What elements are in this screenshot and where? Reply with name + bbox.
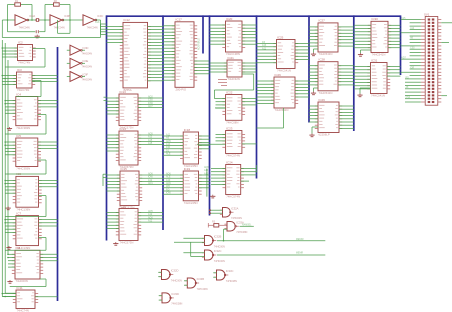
AND gate IC33D (spare) [159,292,183,306]
svg-text:IC20: IC20 [226,17,233,21]
IC IC25 [273,35,298,72]
wire: IC9B lower stub [58,20,71,33]
wire bundle: IC20 right pins to bus VB6 [242,25,257,44]
svg-text:A14: A14 [410,27,415,30]
svg-text:74HC00N: 74HC00N [16,279,28,283]
svg-text:74HC541N: 74HC541N [372,53,386,57]
wire bundle: IC6 outputs to bus VB1 [39,180,58,186]
wire bundle: IC30 left pins from bus VB9 [354,25,371,47]
wire bundle: IC28 left pins from bus VB7 [309,66,318,85]
svg-text:IC32D: IC32D [171,269,179,273]
IC IC24 [223,160,244,198]
wire bundle: IC5 outputs to bus VB1 [38,142,58,148]
IC IC2 [14,40,35,64]
svg-text:74HC04N: 74HC04N [82,66,93,69]
wire: IC32B output long run [217,229,325,241]
svg-text:74HC08N: 74HC08N [197,288,208,291]
wire bundle: IC11 input wires [2,293,17,298]
wire bundle: IC12 right pins to bus VB3 [148,26,164,80]
wire bundle: IC18 right pins to bus VB5 [199,136,210,149]
IC IC7 [13,211,42,249]
wire bundle: IC5 input wires [4,141,15,155]
resistor R1 [15,0,21,6]
wire bundle: IC21 right pins to bus VB6 [242,63,257,72]
svg-text:IC9E: IC9E [83,59,89,63]
wire bundle: IC19 right pins to bus VB5 [199,175,210,188]
wire: IC13 extended left pins [104,97,107,100]
wire bundle: IC27 left pins from bus VB7 [309,27,318,46]
svg-text:SV1: SV1 [424,12,430,16]
svg-text:RAMSEL: RAMSEL [242,223,252,226]
wire: IC11 output to bus VB1 [35,296,58,298]
wire bundle: IC14 right pins to bus VB3 [138,132,163,145]
IC IC4 [13,92,41,130]
svg-text:IC33D: IC33D [171,292,179,296]
bus: bus segment VB4 at x=203 [202,15,204,53]
resistor R3 [208,221,227,228]
IC IC13 [116,90,141,130]
wire bundle: IC19 left pin wires with labels [163,172,183,194]
svg-text:74HC393N: 74HC393N [16,167,30,171]
IC IC14 [116,127,141,169]
svg-text:74HC574N: 74HC574N [226,195,240,199]
wire: IC29 ground [309,127,318,137]
svg-text:74HC00N: 74HC00N [171,279,182,282]
bus: bus segment VB5 at x=209.5 [209,15,211,215]
svg-text:74HC08N: 74HC08N [171,303,182,306]
wire bundle: IC22 right pins to bus VB6 [242,99,257,105]
svg-text:74HC541N: 74HC541N [319,91,333,95]
wire: IC23 right wire to bus VB6 [242,143,257,145]
svg-text:IC5: IC5 [16,134,21,138]
svg-text:IC25: IC25 [277,35,284,39]
wire: IC32B inputs [174,238,205,256]
capacitor C1 [35,30,40,38]
svg-text:ADDRBUS: ADDRBUS [198,38,201,50]
wire: IC32C inputs [183,253,204,257]
svg-text:IC4: IC4 [16,92,21,96]
wire: left column loop 7 [10,279,46,287]
crystal Q1 [36,18,39,21]
NAND gate IC32C [202,249,225,263]
wire: left column loop 5 [5,196,46,217]
wire bundle: IC24 right pins [241,165,257,181]
wire: left column loop 6 [5,238,46,251]
ground symbol left column 3 [6,246,11,249]
svg-text:IC30: IC30 [372,17,379,21]
svg-text:IC28: IC28 [319,58,326,62]
svg-text:IOR: IOR [410,67,414,69]
IC IC28 [315,58,341,96]
wire bundle: IC26 right pins to bus VB7 [295,81,309,97]
wire bundle: IC27 right pins to bus VB9 [338,27,354,46]
bus: bus segment VB10 at x=400.5 [400,15,402,75]
IC IC15 [117,167,142,210]
wire: IC21 lower stubs [218,80,227,86]
wire bundle: IC3 outputs to bus VB1 [32,76,58,82]
svg-text:74HC00N: 74HC00N [214,245,225,248]
ground symbol below IC24 [210,195,215,198]
svg-text:MEMW: MEMW [296,239,304,241]
IC IC12 [120,18,151,92]
svg-text:CS0: CS0 [410,48,415,50]
connector SV1 (pin header ladder) [421,12,441,105]
inverter IC9A [15,14,35,29]
wire: left vertical rail 3 [7,60,9,254]
svg-text:IC15: IC15 [121,167,128,171]
svg-text:74HC574N: 74HC574N [226,154,240,158]
svg-text:AD7: AD7 [148,105,153,108]
inverter IC9D (spare) [67,45,92,55]
svg-text:IC2: IC2 [18,40,23,44]
wire: IC9B output to IC9C [63,19,83,21]
wire: left column loop 3 [5,115,46,135]
net label (vertical) near bus VB4 [198,38,201,50]
svg-text:RD: RD [406,77,410,79]
bus: bus segment VB1 (left column) at x=57.5 [57,47,59,301]
svg-text:IC18: IC18 [184,128,191,132]
wire bundle: IC28 right pins to bus VB9 [338,66,354,85]
IC IC11 [13,286,38,312]
svg-text:IC29: IC29 [319,98,326,102]
ground symbol below IC8 [7,280,12,283]
svg-text:A15: A15 [401,17,406,20]
svg-text:IC33C: IC33C [226,269,234,273]
wire: IC26 bottom link to bus VB6 [257,108,284,128]
svg-text:A10: A10 [204,172,209,175]
svg-text:IC32C: IC32C [214,249,222,253]
IC IC31 [367,58,390,97]
IC IC22 [222,90,245,124]
wire bundle: IC16 right pins to bus VB3 [138,210,163,223]
svg-text:74HC541N: 74HC541N [319,52,333,56]
wire bundle: IC3 input wires [2,75,17,85]
wire bundle: IC23 left pin wires [197,135,226,145]
wire bundle: IC16 left pins from bus VB2 [107,213,120,229]
wire bundle: IC4 input wires [4,100,15,114]
svg-text:IC9D: IC9D [83,46,89,50]
svg-text:74HC00N: 74HC00N [231,217,242,220]
svg-text:74HC08N: 74HC08N [226,280,237,283]
wire: R2 feedback loop [45,5,70,21]
svg-text:IC7: IC7 [16,211,21,215]
svg-text:74HC04N: 74HC04N [82,52,93,55]
wire bundle: IC13 right pins to bus VB3 [138,95,163,108]
AND gate IC33C (spare) [213,269,237,283]
IC IC19 [180,167,202,205]
svg-text:74HC573N: 74HC573N [120,241,134,245]
svg-text:IC9A: IC9A [29,14,35,18]
AND gate IC33B (spare) [184,277,208,291]
wire bundle: IC29 right pins to bus VB9 [339,106,354,128]
IC IC26 [271,73,298,112]
NAND gate IC32A [220,207,242,220]
wire bundle: IC7 input wires [4,219,16,233]
wire: left vertical rail 1 [2,40,16,297]
svg-text:IC9C: IC9C [97,14,103,18]
IC IC23 [222,126,245,157]
NAND gate IC32D (spare) [158,269,182,283]
wire: left column loop 1 [5,49,45,68]
svg-text:IC33B: IC33B [197,277,205,281]
svg-text:IC13: IC13 [120,90,127,94]
IC IC6 [13,172,42,211]
svg-text:74HC08N: 74HC08N [236,231,247,234]
svg-text:74HC04N: 74HC04N [19,26,30,29]
wire bundle: IC26 left pins from bus VB6 [257,81,275,103]
svg-text:IOW: IOW [166,192,172,195]
IC IC29 [315,98,342,137]
svg-text:74HC08N: 74HC08N [226,121,238,125]
svg-text:IC21: IC21 [228,56,235,60]
wire: input to gate IC9A [2,19,15,21]
svg-text:74HC04N: 74HC04N [87,26,98,29]
svg-text:IC16: IC16 [120,204,127,208]
svg-text:IC26: IC26 [275,73,282,77]
wire: R1 feedback loop [8,5,33,21]
NAND gate IC32B [202,235,225,249]
bus: bus segment VB3 at x=163 [162,15,164,230]
svg-text:AD1: AD1 [148,182,153,185]
wire: left column loop 2 [16,81,41,97]
wire: IC30 ground [358,50,371,56]
svg-text:74HC245N: 74HC245N [184,201,198,205]
svg-text:74HC04N: 74HC04N [82,79,93,82]
inverter IC9F (spare) [67,72,92,82]
wire bundle: SV1 left wires [401,17,421,102]
wire bundle: IC22 left pin wires [215,102,226,108]
inverter IC9E (spare) [67,58,92,68]
svg-text:A12: A12 [148,220,153,223]
IC IC16 [116,204,141,244]
wire bundle: IC29 left pins from bus VB7 [309,106,318,122]
svg-text:MEMR: MEMR [296,252,303,254]
wire: IC28 ground [311,88,318,95]
wire: lower loop with C1 [8,20,46,32]
wire bundle: IC12 left pins to bus VB2 [107,26,124,42]
svg-text:IC32A: IC32A [231,207,239,211]
svg-text:IC14: IC14 [120,127,127,131]
svg-text:IC12: IC12 [124,18,131,22]
bus: bus segment VB7 at x=309 [308,15,310,122]
svg-text:ALE: ALE [166,153,171,156]
ground symbol left column 2 [6,207,11,210]
resistor R2 [54,0,60,6]
svg-text:IC32B: IC32B [214,235,222,239]
wire bundle: IC21 left pins from bus VB5 [210,63,228,72]
svg-text:IC19: IC19 [184,167,191,171]
bus: bus segment VB2 at x=106.5 [106,15,108,240]
wire bundle: IC14 left pins from bus VB2 [107,135,120,151]
wire: left vertical rail 2 [5,43,16,293]
svg-text:IC8: IC8 [16,246,21,250]
svg-text:IC3: IC3 [17,68,22,72]
IC IC21 [224,56,245,81]
ground symbol below IC16 [113,242,118,245]
wire bundle: IC8 outputs to bus VB1 [40,254,58,260]
wire bundle: IC2 input wires [2,47,18,57]
AND gate IC33A [224,221,247,234]
svg-text:Z80-PIO: Z80-PIO [176,88,187,92]
wire: IC32C output long run [217,252,325,255]
svg-text:IC24: IC24 [226,160,233,164]
svg-text:IC22: IC22 [226,90,233,94]
inverter IC9C [83,14,103,29]
wire bundle: IC7 outputs to bus VB1 [39,220,58,226]
svg-text:74HC541N: 74HC541N [371,94,385,98]
wire: left column loop 4 [5,160,46,174]
svg-text:IC27: IC27 [319,19,326,23]
wire: clock entries into bus [95,21,107,34]
svg-text:62256LP: 62256LP [319,133,330,137]
wire bundle: IC31 left pins from bus VB9 [354,67,371,89]
IC IC27 [315,19,341,57]
ground symbol left column 1 [7,127,12,130]
svg-text:CS0: CS0 [406,97,411,99]
wire bundle: IC4 outputs to bus VB1 [38,101,58,107]
svg-text:74HC04N: 74HC04N [54,26,65,29]
svg-text:74HC74N: 74HC74N [18,61,30,65]
IC IC17 [172,18,197,92]
bus: horizontal top bus [107,15,401,17]
svg-text:IC9F: IC9F [83,72,89,76]
wire bundle: IC25 left pins from bus VB6 [257,41,277,63]
svg-text:A15: A15 [148,142,153,145]
IC IC8 [12,246,43,283]
wire bundle: IC17 left pins from bus VB3 [163,26,175,80]
svg-text:74HC541N: 74HC541N [275,108,289,112]
wire bundle: IC8 input wires [7,254,15,268]
wire bundle: IC18 left pin wires with labels [163,133,183,155]
svg-text:74HC393N: 74HC393N [16,126,30,130]
IC IC30 [368,17,391,57]
wire: IC9A output to crystal [28,19,36,21]
wire: IC15 extended left pins [103,174,107,186]
svg-text:CLK: CLK [95,21,100,24]
wire bundle: IC31 right pins to bus VB10 [387,67,401,77]
wire bundle: IC20 left pins from bus VB5 [210,25,226,44]
wire bundle: IC13 left pins from bus VB2 [107,98,120,114]
svg-text:IC17: IC17 [176,18,183,22]
wire: IC31 ground [357,88,370,97]
wire: clock output run [2,20,100,38]
wire bundle: IC15 left pins from bus VB2 [107,175,121,191]
IC IC18 [180,128,202,168]
wire: IC27 ground [311,49,318,56]
wire: IC32A inputs from bus VB5 [209,209,223,214]
wire: IC33A output [240,223,254,226]
svg-text:A11: A11 [262,47,267,50]
IC IC3 [13,68,35,92]
bus: bus segment VB6 at x=256.5 [256,15,258,178]
svg-text:74HC00N: 74HC00N [214,260,225,263]
IC IC5 [13,134,41,171]
wire bundle: IC25 right pins to bus VB7 [295,44,309,60]
bus: bus segment VB9 at x=353.8 [353,15,355,131]
wire bundle: IC30 right pins to bus VB10 [388,25,401,47]
wire bundle: IC17 right pins to bus VB5 [194,61,210,74]
svg-text:IC9B: IC9B [64,14,70,18]
IC IC20 [222,17,245,56]
wire bundle: IC24 left pin wires [204,166,226,197]
svg-text:74HC32N: 74HC32N [228,77,240,81]
svg-text:AD7: AD7 [401,57,406,60]
inverter IC9B [50,14,70,29]
wire: IC21-IC22 chain [214,74,253,99]
wire bundle: IC6 input wires [4,180,16,194]
svg-text:IC23: IC23 [226,126,233,130]
wire bundle: IC15 right pins to bus VB3 [139,172,163,185]
svg-text:IC31: IC31 [371,58,378,62]
wire: crystal to gate IC9B [40,19,50,21]
wire bundle: SV1 right wires [441,23,452,96]
